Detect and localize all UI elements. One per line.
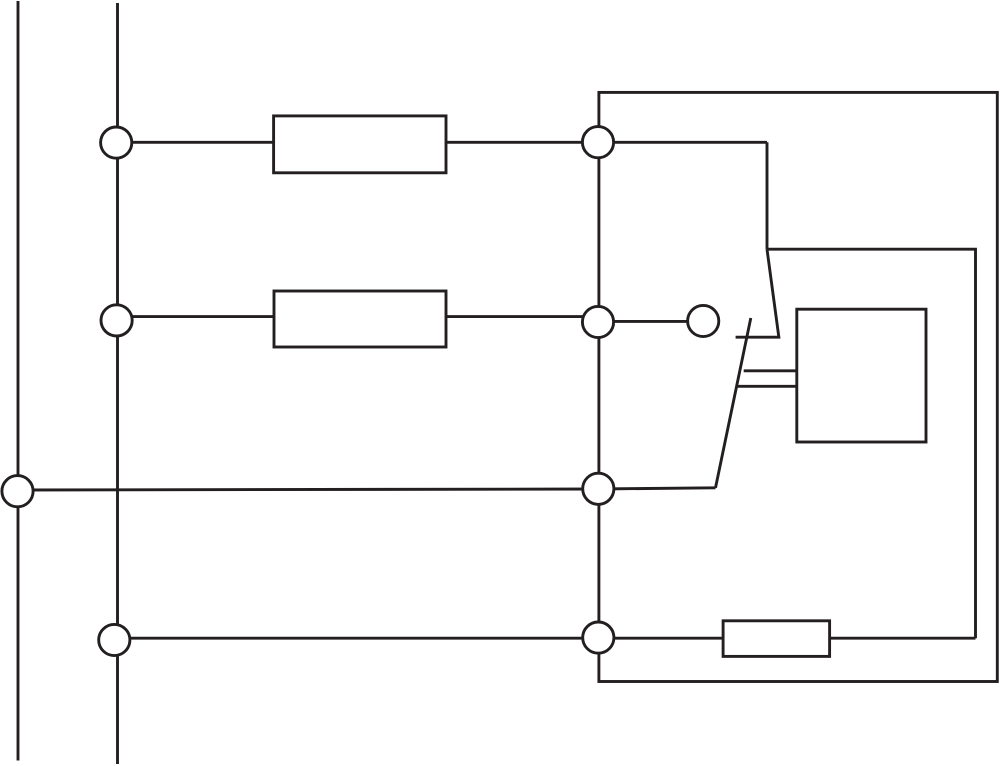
node terminal T2 bbox=[582, 127, 613, 158]
wire row 4 right segment bbox=[830, 637, 976, 640]
mechanical linkage upper line bbox=[744, 369, 797, 372]
inner enclosure path (top and right edges) bbox=[767, 249, 976, 638]
outer enclosure box bbox=[599, 92, 997, 681]
fixed contact of S1 (slant and bar) bbox=[736, 249, 779, 337]
node terminal T1 bbox=[101, 127, 132, 158]
wire row 4 left segment bbox=[118, 637, 724, 640]
wire vertical drop to fixed contact bbox=[766, 142, 769, 249]
wire stub to open terminal bbox=[598, 320, 703, 323]
wire row 1 left segment bbox=[118, 141, 274, 144]
resistor R1 (bottom rectangle) bbox=[723, 621, 830, 657]
switch blade S1 bbox=[716, 318, 751, 488]
fuse F2 (row-2 rectangle) bbox=[274, 291, 446, 347]
node terminal T6 (far-left) bbox=[2, 476, 33, 507]
node terminal T8 bbox=[99, 624, 130, 655]
wire row 2 right segment bbox=[446, 315, 598, 318]
fuse F1 (row-1 rectangle) bbox=[274, 116, 446, 173]
wire L1 supply line (far-left vertical) bbox=[17, 1, 20, 761]
node terminal T3 bbox=[101, 305, 132, 336]
node terminal T5 (open contact circle) bbox=[688, 305, 719, 336]
node terminal T9 bbox=[583, 622, 614, 653]
mechanical linkage lower line bbox=[738, 385, 797, 388]
wire row 1 right segment bbox=[446, 141, 767, 144]
relay coil K1 (square box) bbox=[797, 309, 926, 442]
wire row 2 left segment bbox=[118, 315, 275, 318]
wire L2 supply line (second vertical) bbox=[116, 3, 119, 764]
node terminal T7 bbox=[583, 473, 614, 504]
wire row 3 (from left terminal to switch) bbox=[18, 488, 716, 490]
node terminal T4 bbox=[582, 306, 613, 337]
